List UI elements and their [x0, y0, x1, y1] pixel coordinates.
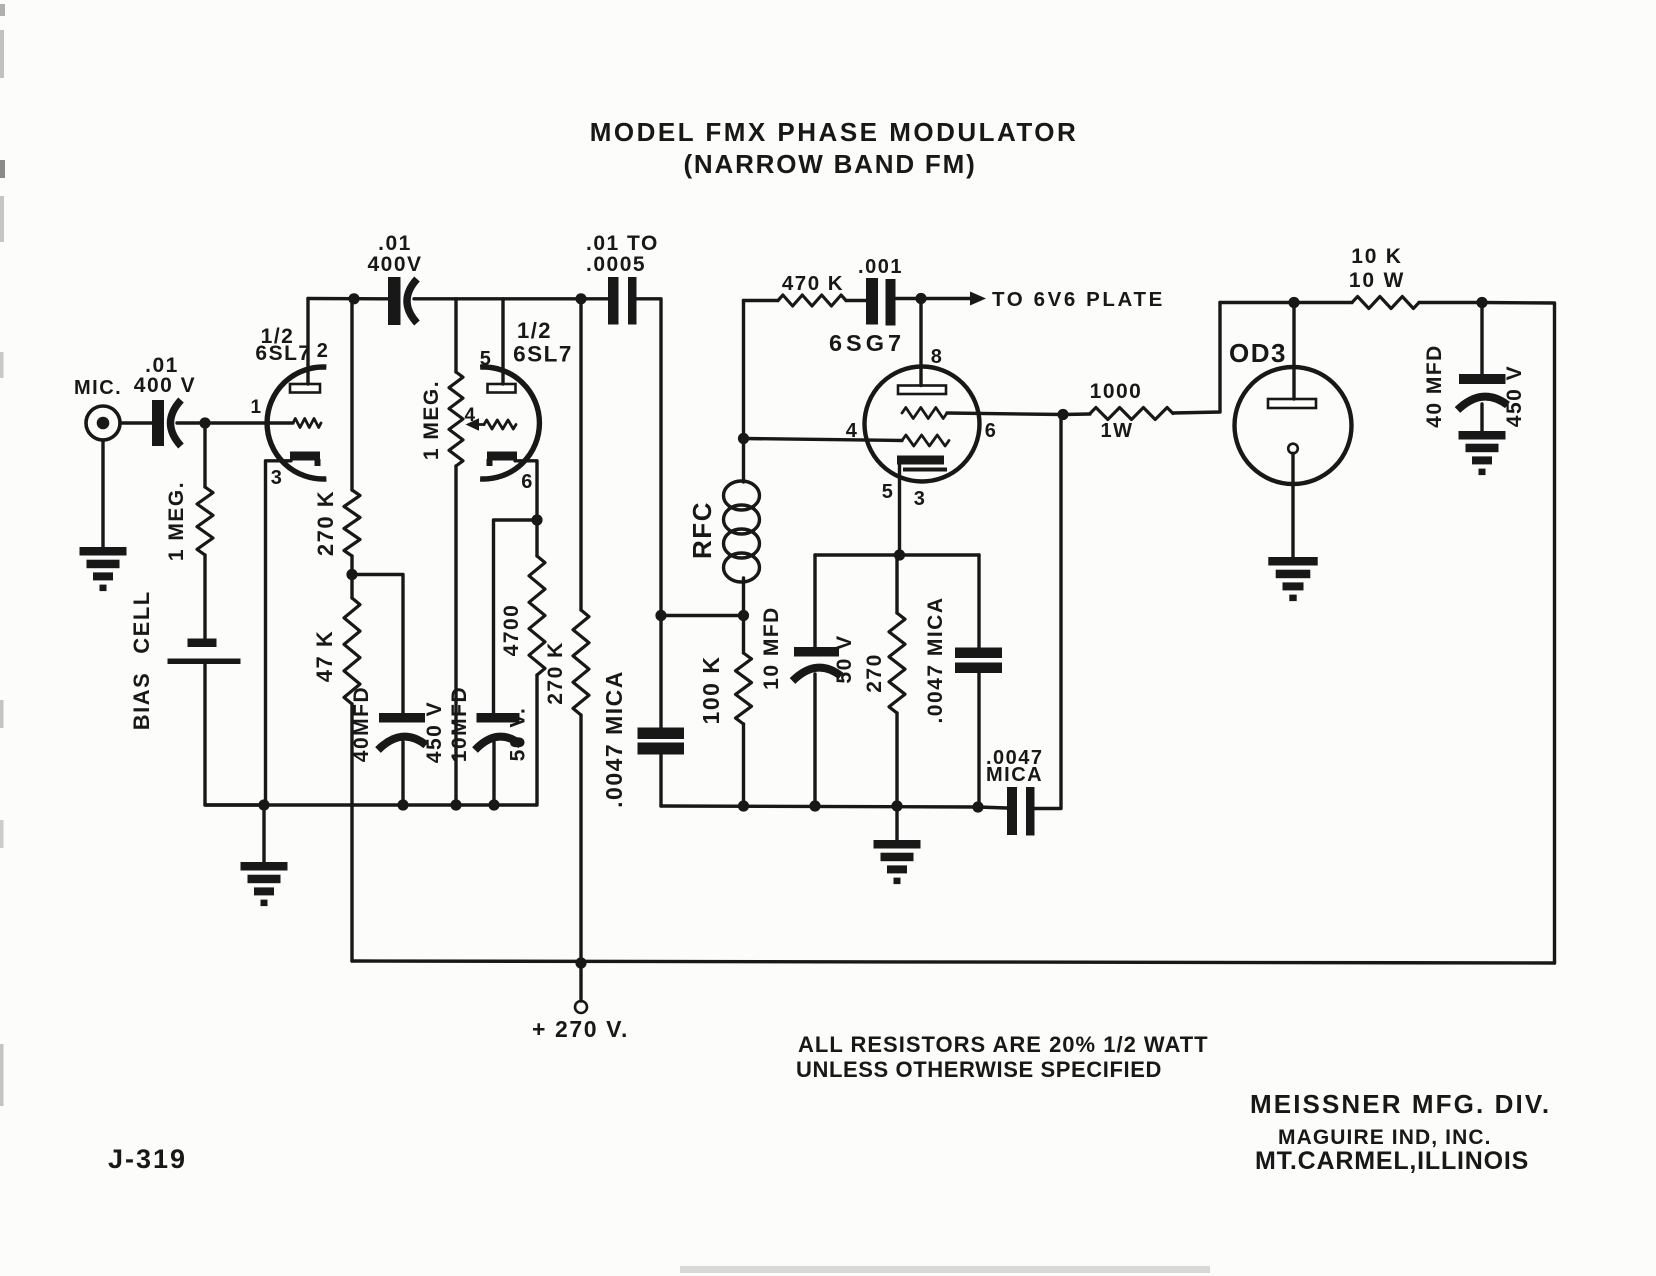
wire .001 cap to arrow	[896, 297, 972, 300]
tube V4 OD3 envelope	[1235, 367, 1352, 484]
wire B+ line (+270V rail)	[352, 961, 1555, 963]
node pin6/1000 (junction dot)	[1057, 409, 1068, 420]
V3 cathode and suppressor	[897, 456, 944, 465]
V4 plate lead	[1292, 303, 1295, 400]
wire V1 plate to coupling cap	[308, 297, 388, 301]
tube V2 1/2 6SL7 envelope	[480, 367, 539, 479]
wire RFC node to V3 grid pin 4	[744, 439, 903, 441]
svg-text:MT.CARMEL,ILLINOIS: MT.CARMEL,ILLINOIS	[1255, 1147, 1529, 1175]
V2 plate lead	[501, 299, 504, 384]
scan marks left edge (decorative)	[0, 4, 5, 16]
svg-text:270 K: 270 K	[544, 641, 567, 705]
resistor 1 MEG (grid leak)	[203, 423, 206, 487]
svg-text:J-319: J-319	[108, 1144, 187, 1174]
node OD3 plate (junction dot)	[1288, 297, 1299, 308]
svg-text:+ 270 V.: + 270 V.	[532, 1016, 629, 1042]
node 40MFD / B+ (junction dot)	[1476, 297, 1487, 308]
potentiometer 1 MEG.	[454, 299, 457, 372]
svg-text:MICA: MICA	[986, 764, 1043, 786]
junction dot .0047 bus	[972, 801, 983, 812]
wire cap to RFC drop	[637, 299, 662, 616]
junction dot bias/V1 cathode bus	[258, 799, 269, 810]
V2 cathode	[487, 452, 517, 461]
arrow TO 6V6 PLATE	[970, 292, 986, 306]
svg-text:8: 8	[931, 346, 944, 368]
svg-text:40 MFD: 40 MFD	[1423, 344, 1446, 428]
V1 cathode	[290, 452, 320, 461]
svg-text:CELL: CELL	[129, 590, 154, 653]
svg-text:6: 6	[521, 471, 534, 493]
capacitor 40 MFD 450 V (filter)	[1480, 303, 1483, 375]
wire 1 MEG to bias cell	[203, 555, 206, 638]
svg-text:4: 4	[464, 405, 476, 426]
node V3 plate / output (junction dot)	[915, 293, 926, 304]
svg-text:.001: .001	[858, 256, 903, 278]
svg-text:ALL RESISTORS ARE 20% 1/2 WAT: ALL RESISTORS ARE 20% 1/2 WATT	[798, 1032, 1209, 1057]
svg-text:2: 2	[317, 340, 330, 362]
svg-text:5: 5	[882, 481, 895, 503]
svg-text:.0005: .0005	[586, 253, 646, 276]
wire 47K down to B+ line (crosses ground bus)	[350, 704, 353, 961]
wire MIC jack to coupling cap	[120, 421, 152, 424]
junction dot 10MFD bus	[809, 800, 820, 811]
junction dot 10MFD on ground bus	[488, 799, 499, 810]
svg-text:1 MEG.: 1 MEG.	[420, 380, 443, 460]
V4 cathode (starter electrode)	[1288, 444, 1298, 454]
V1 plate lead	[306, 299, 309, 385]
svg-text:MODEL FMX PHASE MODULATOR: MODEL FMX PHASE MODULATOR	[590, 117, 1079, 147]
terminal +270 V.	[579, 963, 582, 1001]
wire bus to ground (second stage)	[895, 806, 898, 840]
svg-text:10 W: 10 W	[1349, 269, 1405, 292]
V1 plate	[290, 384, 320, 393]
V1 grid (zigzag)	[293, 419, 321, 428]
resistor 270 K (V1 plate load)	[350, 299, 353, 490]
svg-text:MEISSNER MFG. DIV.: MEISSNER MFG. DIV.	[1250, 1089, 1551, 1119]
wire bias cell to ground bus	[205, 664, 264, 805]
ground bus wire (left)	[205, 803, 536, 806]
svg-text:5: 5	[480, 348, 493, 370]
wire 1000 to 10K line	[1173, 303, 1220, 414]
svg-text:6: 6	[985, 420, 998, 442]
tube V1 1/2 6SL7 envelope	[267, 367, 326, 479]
wire MIC jack down to ground	[101, 440, 104, 547]
svg-text:400 V: 400 V	[134, 374, 196, 397]
ground (second stage)	[874, 840, 921, 849]
svg-text:UNLESS OTHERWISE SPECIFIED: UNLESS OTHERWISE SPECIFIED	[796, 1057, 1162, 1082]
svg-text:450 V: 450 V	[1503, 365, 1526, 427]
wire 470K to .001 cap	[846, 299, 866, 302]
svg-text:50 V: 50 V	[833, 634, 856, 683]
inductor RFC (choke)	[742, 439, 745, 483]
svg-text:MAGUIRE IND, INC.: MAGUIRE IND, INC.	[1278, 1126, 1492, 1149]
svg-text:RFC: RFC	[687, 501, 717, 559]
V3 plate	[898, 386, 946, 395]
ground (mic jack)	[80, 547, 127, 556]
svg-text:4: 4	[846, 420, 859, 442]
svg-text:1: 1	[250, 397, 262, 418]
wire coupling cap to pot / V2 plate node	[414, 297, 608, 300]
wire decoupling node to 40MFD cap	[352, 575, 403, 714]
wire top right: OD3 node to 10K	[1220, 301, 1352, 304]
tube V3 6SG7 envelope	[865, 367, 980, 482]
node 270K/47K junction (dot)	[346, 569, 357, 580]
junction dot 270 bus	[891, 800, 902, 811]
wire cathode node left/right	[815, 553, 979, 556]
wire node to RFC/100K	[661, 614, 744, 617]
resistor 270 (cathode)	[895, 555, 898, 613]
V3 control grid (zigzag, pin 4)	[902, 435, 949, 446]
svg-text:100 K: 100 K	[698, 656, 724, 725]
svg-text:6SG7: 6SG7	[829, 330, 905, 356]
V2 cathode lead	[515, 461, 537, 520]
svg-text:1/2: 1/2	[517, 318, 552, 343]
svg-text:TO 6V6 PLATE: TO 6V6 PLATE	[992, 288, 1165, 311]
svg-text:4700: 4700	[500, 604, 523, 657]
svg-text:450 V: 450 V	[423, 701, 446, 763]
wire 4700 to ground bus end	[536, 675, 537, 805]
capacitor .001	[866, 278, 878, 325]
svg-text:10 MFD: 10 MFD	[760, 606, 783, 690]
svg-text:.01: .01	[378, 232, 412, 255]
capacitor .0047 MICA (cathode)	[977, 555, 980, 648]
wire pin 6 to 1000 ohm node	[947, 413, 1063, 415]
V4 cathode lead to ground	[1291, 453, 1294, 557]
node V3 cathode (junction dot)	[894, 549, 905, 560]
svg-text:1 MEG.: 1 MEG.	[165, 481, 188, 561]
pot wiper arrow (pin 4)	[466, 418, 480, 430]
svg-text:40MFD: 40MFD	[350, 686, 373, 762]
capacitor .01 TO .0005 (output coupling)	[608, 277, 619, 325]
svg-text:3: 3	[914, 488, 927, 510]
V3 cathode lead	[898, 464, 901, 555]
wire cap to grid node	[177, 421, 293, 424]
capacitor .0047 MICA (output coupling)	[978, 807, 1007, 808]
ground (OD3)	[1268, 557, 1317, 566]
V2 plate	[488, 384, 516, 393]
node V2 cathode (junction dot)	[531, 514, 542, 525]
resistor 100 K (grid leak V3)	[742, 616, 745, 654]
capacitor .01 400V (mic coupling)	[152, 400, 164, 446]
junction dot 40MFD on ground bus	[397, 799, 408, 810]
resistor 4700 (V2 cathode)	[535, 520, 538, 556]
svg-text:.0047 MICA: .0047 MICA	[924, 596, 947, 723]
resistor 1000 1W	[1063, 412, 1090, 416]
svg-text:50 V.: 50 V.	[507, 707, 530, 762]
resistor 47 K (decoupling)	[350, 575, 353, 599]
svg-text:OD3: OD3	[1229, 338, 1287, 368]
V1 cathode lead to ground bus	[266, 461, 292, 805]
wire 470K corner down to RFC top	[742, 301, 745, 439]
svg-text:6SL7: 6SL7	[255, 342, 311, 365]
svg-text:10 K: 10 K	[1351, 245, 1403, 268]
wire 270K down to +270V node	[579, 715, 582, 963]
wire bus to main ground	[262, 805, 265, 862]
capacitor 40 MFD 450 V (decoupling electrolytic)	[379, 713, 425, 723]
ground (filter cap)	[1459, 431, 1506, 440]
resistor 470 K	[744, 299, 779, 302]
V4 plate	[1268, 399, 1316, 408]
svg-text:400V: 400V	[367, 253, 422, 276]
svg-text:10MFD: 10MFD	[448, 686, 471, 762]
node RFC top / grid V3 (junction dot)	[738, 433, 749, 444]
ground bus wire (right)	[661, 806, 978, 807]
V3 screen grid (zigzag, pin 6)	[902, 408, 947, 419]
wire pot bottom to ground bus	[454, 466, 457, 805]
capacitor 10 MFD 50 V (cathode bypass)	[813, 555, 816, 647]
capacitor .0047 MICA (to ground bus)	[659, 616, 662, 728]
svg-text:3: 3	[271, 467, 284, 489]
resistor 270 K (V2 plate load)	[579, 299, 582, 610]
svg-text:47 K: 47 K	[312, 630, 337, 682]
node RFC bottom (junction dot)	[655, 610, 666, 621]
svg-text:470 K: 470 K	[782, 272, 844, 295]
V2 grid (zigzag)	[484, 420, 516, 429]
svg-text:1W: 1W	[1101, 420, 1134, 442]
svg-text:1000: 1000	[1090, 380, 1143, 403]
svg-text:.01 TO: .01 TO	[586, 232, 659, 255]
svg-text:BIAS: BIAS	[129, 672, 154, 731]
microphone jack MIC.	[86, 406, 120, 440]
wire to right edge and down	[1482, 303, 1555, 964]
node +270V feed (junction dot)	[575, 957, 586, 968]
ground (main, first stage)	[241, 862, 288, 871]
svg-text:MIC.: MIC.	[74, 377, 122, 399]
node V1 plate / 270K (junction dot)	[348, 293, 359, 304]
svg-text:6SL7: 6SL7	[513, 342, 573, 367]
svg-text:(NARROW BAND FM): (NARROW BAND FM)	[683, 149, 976, 179]
capacitor .01 400V (interstage coupling)	[388, 277, 401, 325]
wire cathode node to 10MFD bypass	[494, 520, 538, 713]
V3 plate lead from .001 node	[919, 299, 922, 386]
capacitor 10 MFD 50 V. (cathode bypass)	[477, 713, 520, 723]
wire 10K to 40MFD node	[1419, 301, 1482, 304]
junction dot 100K on ground bus	[738, 800, 749, 811]
resistor 10 K 10 W	[1352, 297, 1419, 309]
node grid V1 (junction dot)	[199, 417, 210, 428]
svg-text:270: 270	[863, 653, 886, 693]
node V2 plate / output cap (junction dot)	[575, 293, 586, 304]
battery BIAS CELL	[188, 639, 217, 648]
svg-text:270 K: 270 K	[313, 490, 338, 556]
junction dot pot/ground bus	[450, 799, 461, 810]
svg-text:.0047 MICA: .0047 MICA	[601, 670, 627, 808]
